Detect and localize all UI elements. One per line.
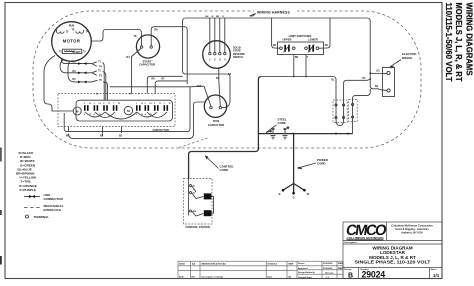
wire: connector 2 to core bus — [352, 89, 371, 134]
control station — [184, 179, 213, 230]
svg-text:T2: T2 — [169, 103, 171, 105]
contactor dashed box — [58, 94, 175, 133]
wire bundle down to contactor — [103, 63, 108, 101]
svg-text:MOTOR: MOTOR — [63, 39, 81, 44]
svg-text:CORD: CORD — [220, 168, 229, 172]
svg-text:SINGLE PHASE, 110-120 VOLT: SINGLE PHASE, 110-120 VOLT — [355, 260, 431, 265]
wire: BR drop from limit — [293, 55, 295, 77]
svg-text:CAPACITOR: CAPACITOR — [139, 63, 155, 67]
steel core bus — [258, 133, 352, 135]
svg-text:T1: T1 — [159, 103, 161, 105]
motor lead R2 with connectors — [61, 58, 102, 68]
contactor inner frame — [76, 100, 173, 121]
svg-text:110/115-1-50/60 VOLT: 110/115-1-50/60 VOLT — [444, 3, 454, 83]
motor lead R5 with connectors — [68, 61, 103, 84]
legend: mechanical interlock symbol — [24, 204, 64, 212]
svg-text:L2: L2 — [150, 103, 152, 105]
svg-text:L1: L1 — [141, 103, 143, 105]
wire: mid horizontal bus y76.5 — [262, 76, 337, 103]
title block — [343, 222, 442, 279]
svg-text:9/16/2014: 9/16/2014 — [323, 262, 333, 265]
wire: bus to limit left — [272, 18, 280, 48]
svg-text:7: 7 — [164, 103, 165, 105]
svg-text:CORE: CORE — [278, 121, 286, 125]
title block description — [345, 241, 431, 264]
revision table — [178, 261, 343, 278]
connector wires through dashed boxes — [335, 77, 370, 126]
CMCO logo — [345, 222, 388, 240]
svg-text:5: 5 — [154, 103, 155, 105]
svg-text:Approved: Approved — [298, 267, 308, 270]
svg-text:B: B — [348, 273, 353, 280]
svg-text:Amherst, NY USA: Amherst, NY USA — [401, 231, 423, 235]
svg-text:29024: 29024 — [362, 270, 386, 280]
svg-text:Description: Description — [345, 241, 358, 244]
svg-text:AA: AA — [192, 262, 196, 265]
svg-text:UPPER: UPPER — [283, 37, 292, 41]
contactor coil M2 — [124, 106, 132, 114]
svg-text:COLUMBUS McKINNON: COLUMBUS McKINNON — [347, 237, 384, 240]
wire: bus to limit right terminal — [319, 18, 330, 48]
svg-text:REDESIGN IN AUTOCAD: REDESIGN IN AUTOCAD — [202, 262, 227, 265]
wiring harness dashed outline — [33, 11, 421, 148]
svg-text:MBR: MBR — [338, 263, 343, 265]
svg-text:LIMIT SWITCHES: LIMIT SWITCHES — [289, 34, 312, 38]
contactor contacts — [84, 105, 168, 111]
svg-text:Format: Format — [344, 268, 352, 271]
label: CONTROL CORD — [205, 156, 234, 173]
svg-text:Columbus McKinnon Corporation: Columbus McKinnon Corporation — [391, 224, 433, 228]
wire: motor left lead to coil — [44, 56, 73, 112]
wire R7: contactor to R8 riser — [155, 78, 187, 94]
wire: T drop from limit — [305, 55, 307, 77]
svg-text:2: 2 — [136, 114, 137, 116]
steel core symbols — [270, 127, 289, 138]
svg-text:Description of change: Description of change — [202, 276, 225, 279]
svg-text:MODELS J, L, R, & RT: MODELS J, L, R, & RT — [454, 3, 464, 83]
svg-text:DN: DN — [205, 212, 209, 216]
svg-text:UP: UP — [206, 195, 210, 199]
legend: line connector symbol — [24, 193, 64, 201]
svg-text:T2: T2 — [118, 103, 120, 105]
right margin vertical title — [444, 3, 474, 83]
wire: start capacitor to R8 drop — [151, 27, 187, 84]
svg-text:7: 7 — [113, 103, 114, 105]
wire R6: contactor to bus riser — [147, 76, 182, 93]
contactor top labels — [96, 94, 140, 96]
svg-text:RUN: RUN — [69, 24, 75, 28]
contactor coil M1 — [73, 107, 81, 115]
contactor interconnect wires — [85, 112, 167, 119]
svg-text:CONNECTOR: CONNECTOR — [44, 197, 64, 201]
svg-text:9/16/2014: 9/16/2014 — [268, 262, 278, 265]
svg-text:LOWER: LOWER — [308, 37, 318, 41]
wire: R10 from contactor area — [110, 86, 190, 88]
solid state reverse switch U1 — [203, 41, 246, 69]
svg-text:INTERLOCK: INTERLOCK — [44, 208, 62, 212]
svg-text:L2: L2 — [99, 103, 101, 105]
svg-text:L1: L1 — [89, 103, 91, 105]
line connector (brake) dashed boxes — [333, 100, 357, 123]
svg-text:14066: 14066 — [179, 262, 186, 265]
svg-text:MBR: MBR — [289, 263, 294, 265]
svg-text:B: B — [279, 192, 281, 196]
svg-text:Hoist & Rigging - Americas: Hoist & Rigging - Americas — [395, 227, 429, 231]
wire: R10 to run capacitor — [190, 86, 211, 106]
interlock dashed leader — [179, 138, 208, 148]
label: WIRING HARNESS — [250, 10, 298, 17]
power cord — [279, 134, 310, 200]
wire: R9 switch to run capacitor — [219, 68, 221, 106]
title block company text — [391, 224, 433, 235]
contactor bottom leads W1 B1 B2 — [66, 127, 123, 138]
lower wire loop — [64, 87, 204, 139]
start capacitor C1 — [126, 28, 159, 66]
motor lead R3 with connectors — [60, 59, 103, 77]
svg-text:9/16/2014: 9/16/2014 — [323, 267, 333, 270]
legend: wire color codes — [16, 151, 37, 192]
svg-text:ECN: ECN — [179, 277, 184, 279]
svg-text:T1: T1 — [108, 103, 110, 105]
control station internals — [189, 179, 214, 216]
svg-text:3: 3 — [94, 103, 95, 105]
svg-text:3: 3 — [145, 103, 146, 105]
label: STEEL CORE — [266, 118, 287, 133]
limit switches S1 — [273, 34, 329, 59]
svg-text:Sheet: Sheet — [431, 268, 437, 271]
svg-text:W: W — [211, 16, 213, 18]
svg-text:2: 2 — [84, 114, 85, 116]
svg-text:Design Authority: Design Authority — [298, 271, 316, 274]
svg-text:WIRING DIAGRAMS: WIRING DIAGRAMS — [464, 3, 474, 76]
svg-text:W: W — [287, 127, 289, 129]
wire: white riser to core bus — [189, 77, 262, 180]
svg-text:CONTROL STATION: CONTROL STATION — [185, 225, 210, 229]
svg-text:TERMINAL: TERMINAL — [34, 215, 50, 219]
svg-text:Drawn: Drawn — [298, 262, 305, 265]
svg-text:START: START — [72, 50, 81, 54]
svg-text:BR: BR — [295, 56, 299, 59]
bus riser to electric brake — [367, 18, 387, 90]
svg-text:1/1: 1/1 — [433, 273, 440, 278]
svg-text:CAPACITOR: CAPACITOR — [208, 123, 224, 127]
svg-text:5: 5 — [103, 103, 104, 105]
svg-text:BRAKE: BRAKE — [402, 56, 412, 60]
svg-text:1: 1 — [84, 103, 85, 105]
wire R4: start capacitor to contactor — [132, 49, 142, 94]
svg-text:P=PURPLE: P=PURPLE — [20, 188, 36, 192]
electric brake B1 — [383, 52, 418, 96]
svg-text:Original Scale: Original Scale — [298, 276, 313, 279]
label: POWER CORD — [298, 158, 329, 169]
svg-text:G: G — [293, 196, 295, 200]
svg-text:CORD: CORD — [317, 161, 326, 165]
svg-text:Vanessa: Vanessa — [325, 272, 334, 274]
legend: terminal symbol — [26, 215, 50, 219]
wire: motor T4 to start capacitor — [91, 30, 141, 46]
wire: bus riser R4 — [183, 18, 230, 108]
wires: switch pins to top bus — [206, 16, 225, 52]
title block number row — [344, 268, 440, 280]
svg-text:WIRING HARNESS: WIRING HARNESS — [257, 11, 290, 15]
svg-text:BL: BL — [331, 79, 335, 82]
top bus to switch — [186, 17, 368, 19]
run capacitor C2 — [197, 73, 232, 127]
contact pin labels — [84, 103, 171, 116]
svg-text:1: 1 — [136, 103, 137, 105]
motor M1 — [52, 22, 92, 62]
scan edge marks — [0, 148, 2, 265]
svg-text:SWITCH: SWITCH — [233, 56, 243, 59]
svg-text:MBR: MBR — [338, 268, 343, 270]
